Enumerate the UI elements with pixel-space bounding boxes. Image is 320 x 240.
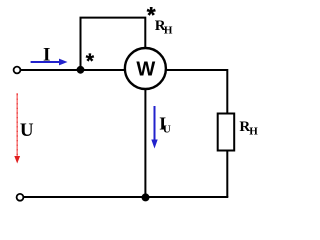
node A (junction dot top)	[77, 66, 85, 74]
node B (junction dot bottom)	[142, 193, 150, 201]
terminal T2 (bottom-left)	[17, 194, 24, 201]
wire from W bottom down to bottom rail	[144, 89, 146, 197]
wire from RH bottom down to bottom rail	[226, 152, 228, 198]
svg-text:U: U	[20, 120, 34, 141]
resistor RH (right branch)	[218, 114, 235, 151]
svg-text:H: H	[164, 24, 173, 36]
op-amp: wattmeter W1 circle	[125, 48, 166, 89]
svg-text:W: W	[136, 59, 155, 81]
wire bottom rail	[24, 196, 229, 198]
node marking asterisk at RH coil	[147, 7, 156, 16]
wire right from W to corner and down to RH	[167, 70, 228, 113]
current arrow IU (blue)	[154, 106, 156, 140]
svg-text:U: U	[163, 124, 171, 136]
svg-text:H: H	[249, 125, 258, 137]
wire top horizontal from T1 to wattmeter	[21, 69, 126, 71]
voltage arrow U (red)	[16, 93, 18, 156]
wire voltage-coil loop (up, across, down to W top)	[81, 18, 146, 70]
current arrow I (blue)	[31, 61, 59, 63]
terminal T1 (top-left input)	[14, 67, 21, 74]
node marking asterisk at junction	[86, 53, 95, 61]
